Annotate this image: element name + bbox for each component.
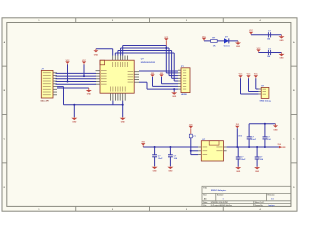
svg-text:10uF: 10uF	[251, 139, 256, 141]
svg-text:GND: GND	[94, 54, 99, 56]
svg-text:GND: GND	[172, 96, 177, 98]
svg-text:GND: GND	[72, 122, 77, 124]
svg-text:Revision: Revision	[268, 195, 275, 197]
svg-text:Date:: Date:	[203, 201, 208, 204]
svg-text:bgeiger: bgeiger	[269, 205, 275, 207]
svg-text:D:\Projects\EMSO.SchDoc: D:\Projects\EMSO.SchDoc	[211, 204, 232, 207]
svg-text:5V0: 5V0	[278, 144, 281, 146]
svg-text:MSP430G2553: MSP430G2553	[141, 61, 156, 64]
svg-text:5/19/2016 3:14:09 PM: 5/19/2016 3:14:09 PM	[211, 201, 228, 204]
svg-text:1K: 1K	[213, 46, 216, 48]
svg-text:GND: GND	[168, 171, 173, 173]
svg-text:GND: GND	[280, 40, 285, 42]
svg-text:10uF: 10uF	[158, 158, 163, 160]
svg-text:EMSO Adapter: EMSO Adapter	[211, 189, 226, 192]
svg-text:Size: Size	[203, 195, 206, 197]
svg-text:GND: GND	[236, 46, 241, 48]
svg-text:GND: GND	[236, 171, 241, 173]
svg-text:Number: Number	[217, 195, 224, 197]
svg-text:Green: Green	[224, 46, 231, 48]
svg-text:10uF: 10uF	[241, 159, 246, 161]
svg-text:GND: GND	[273, 129, 278, 131]
svg-text:GND: GND	[280, 58, 285, 60]
svg-text:GND: GND	[121, 122, 126, 124]
svg-text:HDR8: HDR8	[181, 94, 188, 96]
svg-text:DAC-SPI: DAC-SPI	[41, 99, 50, 102]
svg-text:Title: Title	[203, 186, 207, 189]
svg-text:GND: GND	[87, 94, 92, 96]
svg-text:Sheet 1 of 1: Sheet 1 of 1	[255, 201, 265, 204]
svg-text:File:: File:	[203, 205, 207, 207]
svg-text:Drawn By:: Drawn By:	[255, 205, 264, 207]
svg-text:SWD debug: SWD debug	[260, 101, 272, 103]
svg-text:GND: GND	[153, 171, 158, 173]
svg-text:GND: GND	[255, 171, 260, 173]
